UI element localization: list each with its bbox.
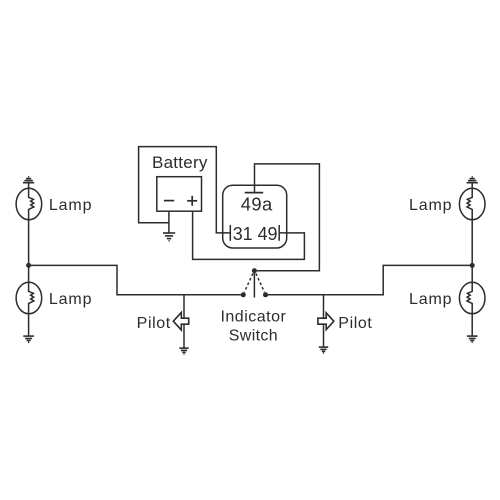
relay U1 flasher body: [223, 185, 287, 248]
wire right bus switch to right lamps: [266, 265, 473, 294]
wire top right ground to lamp L3: [471, 183, 473, 189]
wire L3 to junction to L4: [471, 220, 473, 283]
lamp L2 filament: [29, 282, 34, 313]
ground G3 bottom left: [23, 336, 34, 342]
relay U1 terminal 49 bar: [278, 225, 280, 241]
battery B1 minus terminal mark: [164, 200, 174, 202]
lamp L3 top right body: [459, 188, 485, 219]
ground G6 left pilot: [179, 348, 188, 354]
node right lamps junction: [470, 263, 475, 268]
indicator switch S1 dashed throw right: [256, 274, 265, 293]
wire relay 49a to indicator switch common: [255, 164, 320, 271]
battery B1 plus terminal mark: [187, 196, 197, 206]
battery B1 body: [157, 177, 202, 212]
wire battery loop (minus/31 net): [139, 147, 231, 233]
wire battery plus to relay terminal 49: [193, 211, 305, 259]
indicator switch S1 left contact node: [241, 292, 246, 297]
wire top left ground to lamp L1: [28, 183, 30, 189]
ground G7 right pilot: [319, 347, 328, 353]
svg-text:Battery: Battery: [152, 153, 208, 172]
lamp L4 bottom right body: [459, 282, 485, 313]
ground G1 battery: [163, 233, 175, 241]
svg-text:Indicator: Indicator: [220, 309, 286, 326]
relay U1 terminal 49a bar: [245, 192, 264, 194]
svg-text:Switch: Switch: [229, 328, 278, 345]
ground G5 bottom right: [467, 336, 478, 342]
ground G2 top left (inverted): [23, 177, 34, 183]
svg-text:Pilot: Pilot: [338, 315, 372, 332]
svg-text:49a: 49a: [241, 194, 273, 215]
indicator switch S1 dashed throw left: [244, 274, 253, 293]
indicator switch S1 right contact node: [263, 292, 268, 297]
wire L4 to bottom right ground: [471, 314, 473, 336]
svg-text:Pilot: Pilot: [137, 315, 171, 332]
wire right pilot drop: [323, 295, 325, 347]
lamp L3 filament: [467, 188, 472, 219]
lamp L1 top left body: [16, 188, 42, 219]
lamp L4 filament: [467, 282, 472, 313]
wire battery minus to ground: [168, 211, 170, 232]
wire L2 to bottom left ground: [28, 314, 30, 336]
lamp L1 filament: [29, 188, 34, 219]
wire L1 to junction to L2: [28, 220, 30, 283]
node left lamps junction: [26, 263, 31, 268]
indicator switch S1 common node: [252, 268, 257, 273]
lamp L2 bottom left body: [16, 282, 42, 313]
svg-text:Lamp: Lamp: [409, 291, 452, 308]
wire left bus switch to left lamps: [29, 265, 244, 294]
relay U1 terminal 31 bar: [229, 225, 231, 241]
pilot lamp right arrow: [318, 313, 334, 330]
svg-text:Lamp: Lamp: [409, 197, 452, 214]
indicator switch S1 lever: [253, 271, 255, 298]
svg-text:Lamp: Lamp: [49, 197, 92, 214]
svg-text:31 49: 31 49: [233, 223, 278, 244]
ground G4 top right (inverted): [467, 177, 478, 183]
svg-text:Lamp: Lamp: [49, 291, 92, 308]
wire left pilot drop: [183, 295, 185, 348]
pilot lamp left arrow: [173, 312, 188, 330]
